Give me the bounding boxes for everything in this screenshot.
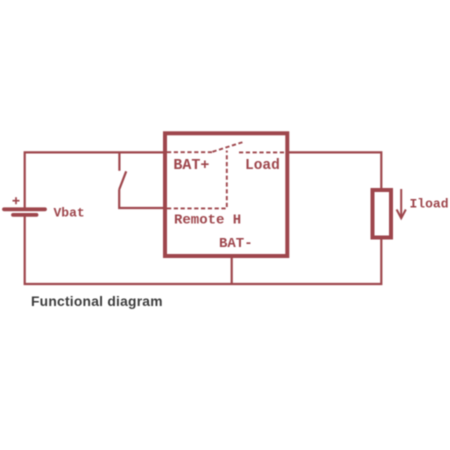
svg-text:Iload: Iload <box>410 196 449 211</box>
battery BT1 minus plate <box>13 213 37 217</box>
wire box right to load top <box>289 152 382 188</box>
dashed net BAT+ to internal switch <box>167 151 213 153</box>
svg-text:Remote H: Remote H <box>174 213 241 229</box>
battery plus sign <box>13 197 20 204</box>
title Functional diagram <box>31 294 163 309</box>
relay box U1 <box>165 133 287 256</box>
dashed net Load side <box>239 151 287 153</box>
dashed internal switch blade <box>213 142 243 152</box>
svg-text:BAT+: BAT+ <box>173 157 209 174</box>
svg-text:Load: Load <box>245 158 280 174</box>
wire top-left: battery plus to switch node to box left <box>25 152 163 207</box>
dashed remote control path <box>167 151 227 209</box>
svg-text:BAT-: BAT- <box>219 236 253 252</box>
wire bottom bus: battery minus to bottom rail to load bottom <box>25 215 382 284</box>
resistor RL load <box>373 190 392 238</box>
switch S1 <box>119 152 164 208</box>
battery BT1 plus plate <box>4 207 45 211</box>
svg-text:Vbat: Vbat <box>54 206 85 221</box>
arrow Iload current direction <box>397 189 406 218</box>
wire box bottom to bus <box>231 257 233 284</box>
